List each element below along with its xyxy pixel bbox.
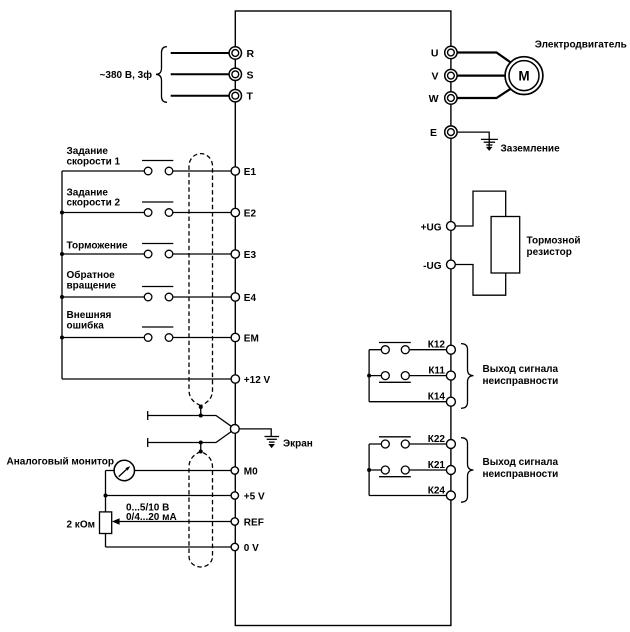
svg-text:EM: EM [244, 334, 259, 345]
wire: K24 row [369, 495, 446, 497]
junction on relay bus 2 [367, 468, 371, 472]
terminal EM [231, 333, 259, 344]
svg-text:R: R [247, 48, 255, 60]
svg-text:неисправности: неисправности [483, 469, 559, 480]
junction: screen line lower [199, 441, 203, 445]
wire: lower screen line [148, 432, 232, 443]
wire: E2 row [62, 212, 231, 214]
shield (screened cable 1, dashed) [189, 154, 213, 406]
terminal +UG [421, 222, 456, 234]
svg-text:неисправности: неисправности [483, 376, 559, 387]
contact K11 (NC) [379, 372, 411, 383]
terminal K21 [428, 460, 456, 475]
potentiometer R1 (2 kOhm) [100, 512, 112, 534]
svg-text:M: M [518, 69, 529, 84]
terminal W [429, 92, 458, 105]
svg-text:E1: E1 [244, 167, 257, 178]
wire: upper screen line [148, 416, 232, 427]
terminal -UG [423, 260, 455, 272]
contact K22 (NO) [379, 437, 411, 448]
wire: +5V row [106, 495, 231, 497]
wire: +12V row [62, 378, 231, 380]
wire: K12 row [369, 349, 446, 351]
junction: screen line upper [199, 414, 203, 418]
junction +5V branch [104, 494, 108, 498]
junction on relay bus 1 [367, 374, 371, 378]
terminal K14 [428, 392, 456, 407]
svg-text:К14: К14 [428, 392, 446, 403]
junction E2 [60, 211, 64, 215]
terminal S [229, 68, 253, 81]
terminal REF [231, 518, 264, 529]
svg-text:вращение: вращение [67, 280, 117, 291]
contact K12 (NO) [379, 343, 411, 354]
switch S1 (speed set 1) [142, 161, 173, 175]
wire: 3-phase input lines R,S,T [171, 53, 230, 96]
wire: E3 row [62, 253, 231, 255]
svg-text:E2: E2 [244, 209, 257, 220]
svg-text:Тормозной: Тормозной [527, 236, 581, 247]
svg-text:T: T [247, 91, 254, 103]
terminal E1 [231, 167, 256, 178]
wire: K11 row [369, 375, 446, 377]
svg-text:резистор: резистор [527, 247, 572, 258]
terminal 0V [231, 543, 259, 554]
terminal K12 [428, 340, 456, 355]
svg-text:E3: E3 [244, 250, 257, 261]
wire: screen line to shield 2 [200, 443, 202, 452]
inverter body (main box) [235, 11, 451, 626]
switch S5 (external fault) [142, 327, 173, 341]
wire: shield1 drain to screen line [200, 407, 202, 416]
svg-text:+12 V: +12 V [244, 375, 271, 386]
svg-text:К22: К22 [428, 434, 446, 445]
svg-text:Внешняя: Внешняя [67, 310, 112, 321]
svg-text:Электродвигатель: Электродвигатель [535, 40, 627, 51]
svg-text:S: S [247, 69, 254, 81]
svg-text:E: E [430, 127, 437, 139]
wire: U output to motor [456, 53, 511, 63]
svg-text:-UG: -UG [423, 261, 442, 272]
shield (screened cable 2, dashed) [189, 452, 213, 568]
wire: M0 row [106, 470, 231, 472]
wire: 0V row [106, 546, 231, 548]
svg-text:Обратное: Обратное [67, 269, 116, 281]
wire: E4 row [62, 296, 231, 298]
wire: monitor branch vertical [105, 471, 107, 512]
svg-text:К11: К11 [428, 366, 445, 377]
svg-text:REF: REF [244, 518, 264, 529]
wire: W output to motor [456, 89, 511, 98]
brace: 3-phase supply group [156, 47, 167, 103]
svg-text:+UG: +UG [421, 222, 442, 233]
svg-text:скорости 1: скорости 1 [67, 156, 121, 167]
wire: K21 row [369, 469, 446, 471]
resistor: brake resistor [491, 217, 520, 274]
terminal E3 [231, 250, 256, 261]
terminal E4 [231, 293, 256, 304]
svg-text:К24: К24 [428, 486, 446, 497]
relay group 2: left bus [368, 444, 370, 496]
terminal U [431, 46, 457, 59]
terminal E [430, 126, 457, 139]
terminal +5V [231, 492, 265, 503]
wire: K22 row [369, 443, 446, 445]
svg-text:скорости 2: скорости 2 [67, 198, 121, 209]
wire: +UG to brake resistor top [455, 191, 505, 226]
shield end bar upper [147, 411, 149, 420]
svg-text:К21: К21 [428, 460, 446, 471]
svg-text:0 V: 0 V [244, 543, 259, 554]
wire: K14 row [369, 401, 446, 403]
wire: V output to motor [456, 74, 505, 76]
wire: REF row with wiper arrow [119, 521, 231, 523]
svg-text:Задание: Задание [67, 146, 109, 157]
node: shield 2 top [199, 450, 203, 454]
svg-text:Аналоговый монитор: Аналоговый монитор [7, 457, 114, 468]
brace: fault output group 2 [461, 438, 474, 503]
wire: -UG to brake resistor bottom [455, 265, 505, 296]
switch S3 (braking) [142, 244, 173, 258]
junction E4 [60, 295, 64, 299]
wire: screen terminal to ground [239, 429, 271, 437]
svg-text:ошибка: ошибка [67, 320, 105, 332]
terminal E2 [231, 208, 256, 219]
terminal R [229, 47, 254, 60]
wire: E1 row [62, 170, 231, 172]
svg-text:Экран: Экран [283, 438, 313, 449]
svg-text:U: U [431, 48, 439, 60]
wire: E to earth [457, 132, 489, 139]
meter P1 (analog monitor) [114, 460, 134, 480]
svg-text:E4: E4 [244, 293, 257, 304]
wire: EM row [62, 337, 231, 339]
terminal: screen terminal [230, 425, 239, 434]
svg-text:2 кОм: 2 кОм [66, 520, 95, 531]
brace: fault output group 1 [461, 344, 474, 409]
input bus (left) [61, 171, 63, 379]
svg-text:M0: M0 [244, 467, 258, 478]
shield end bar lower [147, 438, 149, 447]
terminal M0 [231, 467, 258, 478]
wire: pot bottom to 0V row [105, 534, 107, 548]
svg-text:W: W [429, 93, 439, 105]
svg-text:Выход сигнала: Выход сигнала [483, 457, 559, 468]
terminal K22 [428, 434, 456, 449]
node: shield 1 drain [199, 405, 203, 409]
svg-text:V: V [431, 71, 438, 83]
svg-text:~380 В, 3ф: ~380 В, 3ф [100, 69, 153, 81]
terminal V [431, 69, 457, 82]
switch S2 (speed set 2) [142, 202, 173, 216]
ground (screen) symbol [265, 437, 280, 448]
svg-text:Выход сигнала: Выход сигнала [483, 364, 559, 375]
svg-text:+5 V: +5 V [244, 492, 265, 503]
ground (earth) symbol at E [481, 139, 498, 150]
svg-text:0/4...20 мА: 0/4...20 мА [126, 512, 177, 523]
svg-text:Задание: Задание [67, 187, 109, 198]
svg-text:Заземление: Заземление [501, 144, 561, 155]
junction EM [60, 336, 64, 340]
contact K21 (NC) [379, 466, 411, 477]
terminal K24 [428, 486, 456, 501]
terminal +12V [231, 375, 270, 386]
switch S4 (reverse) [142, 287, 173, 301]
svg-text:К12: К12 [428, 340, 446, 351]
junction E3 [60, 252, 64, 256]
motor M1 (electric motor) [505, 57, 543, 95]
terminal K11 [428, 366, 455, 381]
terminal T [229, 90, 253, 103]
relay group 1: left bus [368, 350, 370, 402]
arrow: pot wiper [112, 518, 120, 525]
svg-text:Торможение: Торможение [67, 241, 129, 252]
